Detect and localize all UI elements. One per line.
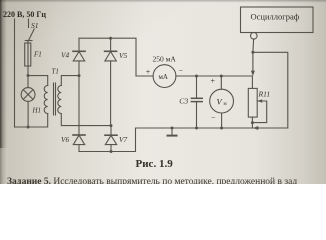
wire: V4 anode to node A to V6 cathode [78,61,80,135]
svg-text:С3: С3 [179,97,188,106]
resistor R11 (potentiometer) [248,76,270,128]
wire: V5 anode to node B [110,61,112,126]
svg-text:R11: R11 [258,90,271,99]
node A: AC input left [78,74,81,77]
svg-text:Т1: Т1 [52,68,59,76]
wire: bridge top rail to ammeter [79,38,153,76]
wire: bridge right column top [110,38,112,51]
wire: secondary bottom to node B [61,114,111,126]
wire: oscilloscope ground return loop [253,52,288,128]
svg-text:+: + [211,77,216,86]
diode V4 [61,51,85,61]
ammeter mA [146,55,184,88]
probe arrowhead onto positive rail [251,71,255,76]
oscilloscope [241,7,314,39]
node: lamp bottom junction [27,126,30,129]
transformer T1 [44,68,61,116]
diode V6 [61,135,85,145]
wire: V7 anode to bottom rail [110,145,112,152]
svg-text:F1: F1 [33,51,42,59]
wire: V6 anode to bottom rail [78,145,80,152]
node: C3 bottom junction [195,127,198,130]
lamp H1 [21,76,41,128]
voltmeter V [210,76,234,128]
svg-text:−: − [179,67,184,76]
svg-text:Задание 5. Исследовать выпрями: Задание 5. Исследовать выпрямитель по ме… [7,176,297,184]
svg-text:V6: V6 [61,135,69,144]
diode V5 [105,51,128,61]
node: V7 bottom junction [110,150,113,153]
node: voltmeter bottom junction [220,127,223,130]
capacitor C3 [179,76,202,128]
wire: bridge left column [78,38,80,51]
svg-text:Осциллограф: Осциллограф [251,12,300,22]
wire: node B to V7 cathode [110,126,112,136]
wire: junction to transformer primary top [28,76,48,86]
svg-text:+: + [146,68,151,77]
wire: oscilloscope probe down to positive rail [252,39,255,70]
wire: bridge bottom rail [79,128,288,152]
wire: positive rail from ammeter to R11 top [176,75,253,77]
svg-text:−: − [211,114,216,123]
svg-text:Н1: Н1 [32,107,42,115]
node B: AC input right [110,124,113,127]
node: primary top junction [27,74,30,77]
svg-text:V5: V5 [119,51,127,60]
node: voltmeter top junction [220,75,223,78]
node: C3 top junction [195,75,198,78]
node: oscilloscope ground branch junction [251,51,254,54]
wire: left mains conductor [14,19,16,127]
svg-text:220 В, 50 Гц: 220 В, 50 Гц [3,10,46,19]
svg-text:мА: мА [159,73,169,81]
fuse F1 [25,41,42,67]
node: V5 top junction [109,37,112,40]
svg-text:Рис. 1.9: Рис. 1.9 [136,158,174,170]
diode V7 [105,135,127,145]
switch S1 [25,19,38,41]
ground [168,127,177,136]
svg-text:250 мА: 250 мА [153,55,177,64]
svg-text:V4: V4 [61,51,69,60]
wire: secondary top to node A [61,76,79,86]
wire: fuse to primary-top junction [27,66,29,76]
wire: bottom-left rail to primary bottom [15,114,48,128]
node: R11 bottom junction with wiper arrow on rail [253,126,258,130]
svg-text:V7: V7 [119,135,127,144]
svg-text:S1: S1 [31,21,39,30]
